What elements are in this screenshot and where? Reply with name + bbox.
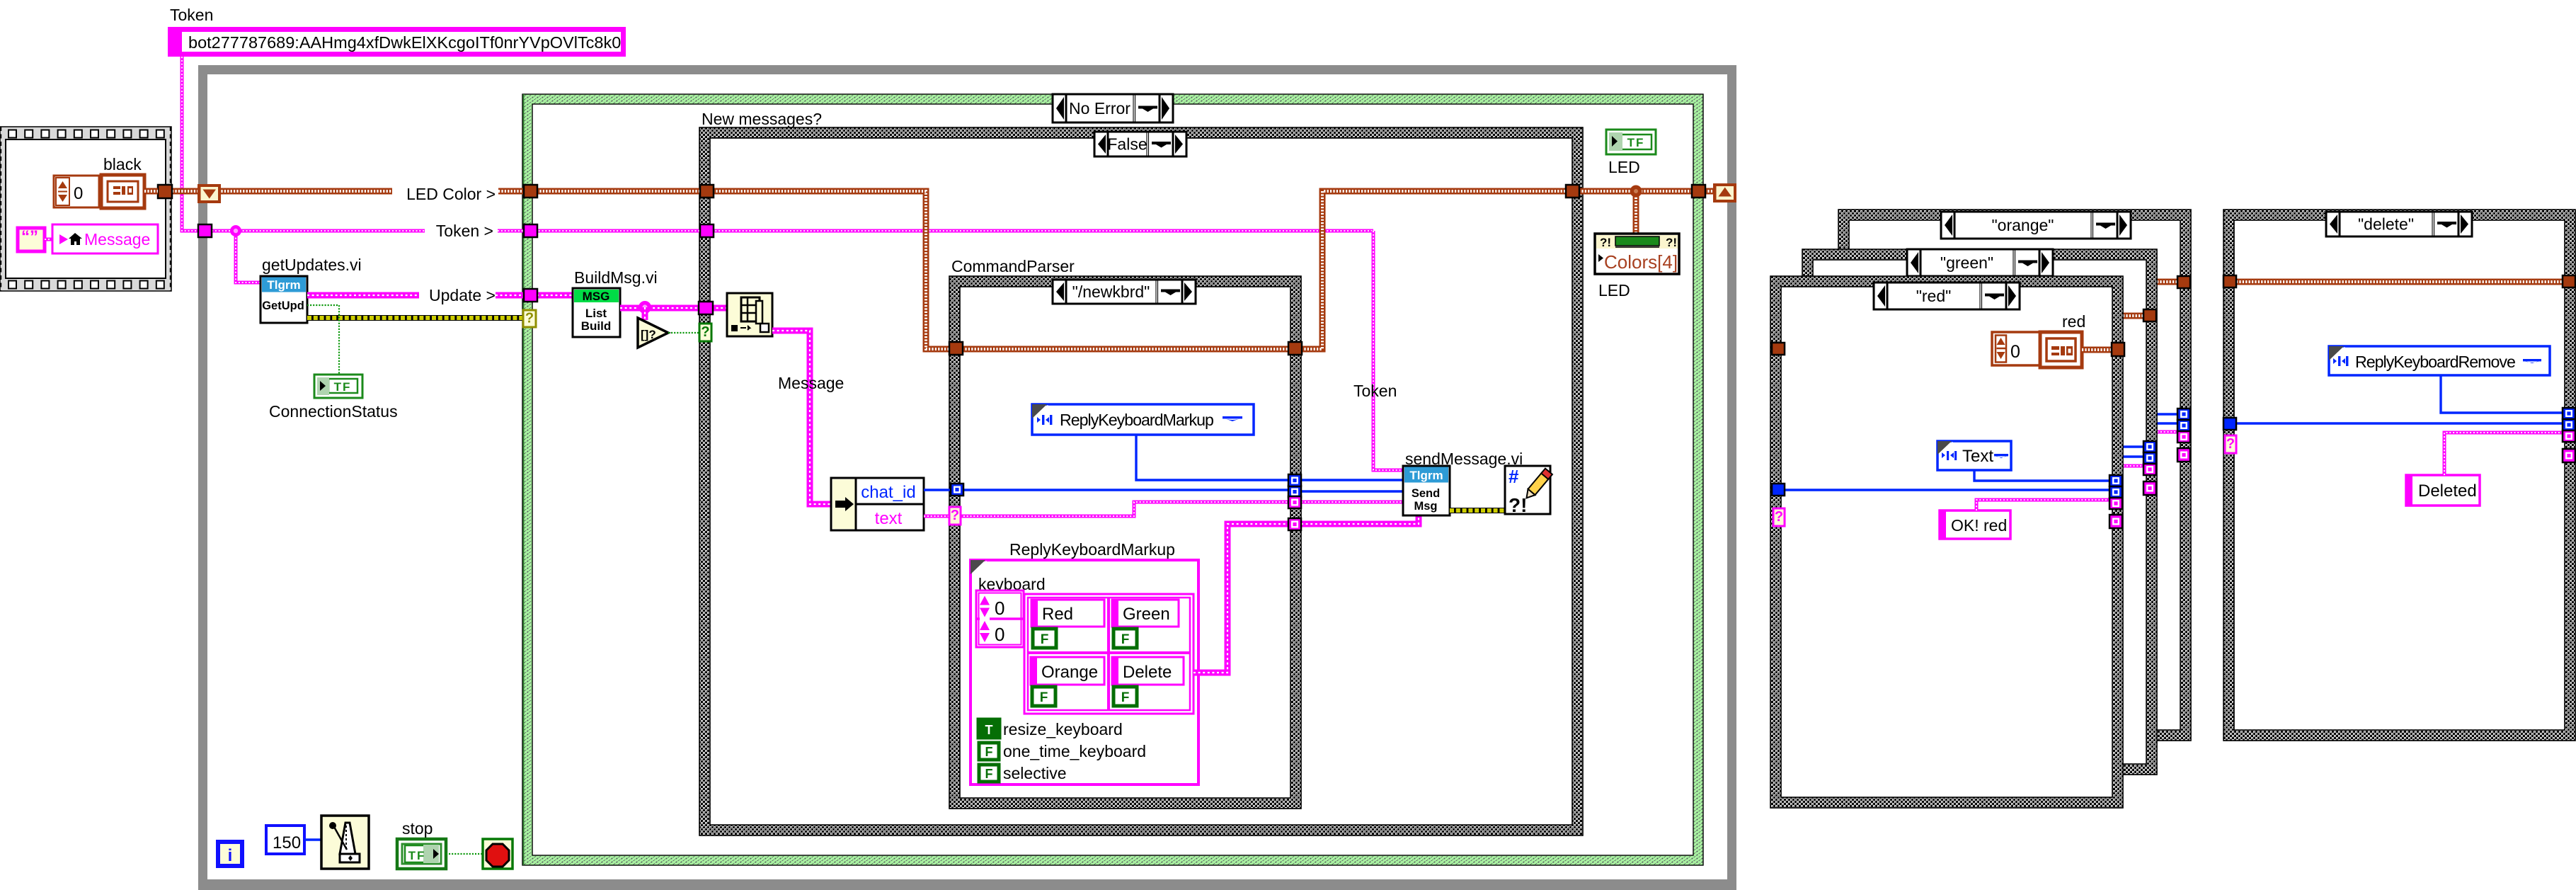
cluster Message xyxy=(52,224,158,253)
tunnel chat_id delete left xyxy=(2223,418,2236,430)
tunnel LED on New messages right xyxy=(1566,185,1579,198)
tunnel keyboard CP right xyxy=(1288,518,1301,530)
svg-text:Message: Message xyxy=(84,230,150,249)
tunnel LED on New messages left xyxy=(700,185,714,198)
svg-text:F: F xyxy=(985,745,993,759)
tunnel orange magenta xyxy=(2177,431,2190,443)
cluster ReplyKeyboardMarkup keyboard xyxy=(971,560,1198,785)
tunnel LED CommandParser left xyxy=(949,342,963,355)
svg-text:T: T xyxy=(985,723,993,737)
tunnel orange brown xyxy=(2177,276,2190,288)
wire text xyxy=(924,515,949,518)
svg-text:Tlgrm: Tlgrm xyxy=(1409,469,1443,482)
empty array? comparison xyxy=(638,318,668,348)
wires orange right sliver xyxy=(2157,413,2177,415)
svg-text:resize_keyboard: resize_keyboard xyxy=(1003,720,1123,738)
tunnel red magenta xyxy=(2110,498,2122,509)
svg-text:New messages?: New messages? xyxy=(702,110,822,128)
tunnel red magenta lower xyxy=(2110,515,2122,528)
tunnel green brown xyxy=(2143,309,2156,321)
tunnel Update on No Error xyxy=(524,289,537,302)
tunnel text CP right xyxy=(1288,496,1301,508)
constant ReplyKeyboardRemove type xyxy=(2329,346,2550,375)
wire token main run xyxy=(236,229,425,233)
wire empty-array result xyxy=(668,332,699,333)
svg-text:No Error: No Error xyxy=(1069,99,1130,118)
tunnel boolean ? on New messages xyxy=(699,324,711,341)
wire keyboard json xyxy=(1193,524,1290,673)
tunnel LED on No Error left xyxy=(524,185,537,198)
wire red color xyxy=(2082,347,2112,353)
svg-text:one_time_keyboard: one_time_keyboard xyxy=(1003,742,1146,760)
svg-text:Build: Build xyxy=(581,319,612,333)
svg-text:"orange": "orange" xyxy=(1992,216,2054,234)
tunnel red blue 2 xyxy=(2110,486,2122,498)
svg-text:?!: ?! xyxy=(1600,236,1611,249)
wait until next ms multiple xyxy=(321,816,369,869)
tunnel delete magenta lower xyxy=(2563,449,2575,462)
indicator ConnectionStatus TF xyxy=(314,375,362,398)
svg-text:Token: Token xyxy=(1353,382,1397,400)
tunnel green magenta lower xyxy=(2143,481,2156,495)
wire chat_id xyxy=(924,489,951,491)
indicator LED TF xyxy=(1606,130,1656,154)
svg-text:0: 0 xyxy=(995,598,1004,619)
svg-text:MSG: MSG xyxy=(583,290,610,303)
wire delete brown xyxy=(2236,279,2563,285)
selector orange xyxy=(1941,212,2131,239)
boolean F green xyxy=(1114,629,1137,648)
svg-text:Orange: Orange xyxy=(1041,663,1098,682)
empty string constant xyxy=(18,227,45,251)
svg-text:CommandParser: CommandParser xyxy=(951,257,1075,275)
flat sequence frame xyxy=(0,127,171,291)
wire 150 to wait xyxy=(304,838,321,840)
tunnel green magenta xyxy=(2143,464,2156,475)
svg-text:ReplyKeyboardMarkup: ReplyKeyboardMarkup xyxy=(1009,540,1175,559)
numeric spinner black xyxy=(54,176,99,207)
tunnel orange magenta lower xyxy=(2177,448,2190,462)
boolean F selective xyxy=(979,765,999,782)
wire error cluster xyxy=(307,315,523,321)
error handler node xyxy=(1505,466,1552,516)
numeric spinner red xyxy=(1992,332,2040,365)
svg-text:F: F xyxy=(1041,632,1049,647)
svg-text:0: 0 xyxy=(995,624,1004,645)
svg-text:LED: LED xyxy=(1608,158,1640,176)
svg-text:Text: Text xyxy=(1962,447,1993,466)
indicator Colors[4] xyxy=(1595,234,1679,274)
svg-text:150: 150 xyxy=(273,833,301,852)
selector red xyxy=(1874,283,2020,309)
svg-text:?: ? xyxy=(2226,436,2235,452)
svg-text:Delete: Delete xyxy=(1123,663,1172,682)
wire green brown sliver xyxy=(2123,313,2143,319)
wire OK! red xyxy=(1976,500,2110,510)
svg-text:"/newkbrd": "/newkbrd" xyxy=(1072,283,1150,301)
loop condition terminal xyxy=(483,839,513,869)
svg-text:?: ? xyxy=(951,508,959,523)
svg-text:GetUpd: GetUpd xyxy=(262,299,304,312)
string constant OK! red xyxy=(1940,510,2010,539)
svg-text:i: i xyxy=(228,846,233,865)
svg-text:ReplyKeyboardMarkup: ReplyKeyboardMarkup xyxy=(1060,411,1213,429)
case structure No Error border xyxy=(522,94,1703,865)
wire stop boolean xyxy=(446,853,483,855)
tunnel token on New messages case xyxy=(700,224,714,237)
svg-text:F: F xyxy=(985,767,993,781)
boolean F orange xyxy=(1032,687,1055,706)
wire black to tunnel xyxy=(144,188,158,195)
svg-text:Deleted: Deleted xyxy=(2418,481,2477,501)
svg-text:0: 0 xyxy=(2010,342,2020,362)
tunnel green blue 2 xyxy=(2143,452,2156,464)
svg-text:selective: selective xyxy=(1003,764,1066,782)
svg-text:Token: Token xyxy=(170,6,213,24)
color box constant black xyxy=(101,175,144,208)
junction message xyxy=(639,301,651,314)
wire LED Color brown xyxy=(172,188,198,195)
svg-text:chat_id: chat_id xyxy=(861,483,915,502)
tunnel text ? delete left xyxy=(2225,435,2236,453)
tunnel green blue 1 xyxy=(2143,441,2156,452)
selector /newkbrd xyxy=(1053,280,1196,304)
index array node xyxy=(727,293,772,336)
wires green right sliver xyxy=(2123,445,2143,447)
svg-text:getUpdates.vi: getUpdates.vi xyxy=(262,256,362,274)
svg-text:?: ? xyxy=(701,324,709,340)
wire reply markup xyxy=(1136,435,1290,480)
case structure CommandParser border xyxy=(949,276,1301,809)
left shift register xyxy=(198,184,221,203)
svg-text:F: F xyxy=(1121,690,1130,705)
subVI BuildMsg.vi xyxy=(573,288,620,337)
wire token down to sendMessage xyxy=(1373,231,1403,470)
wire message out of index array xyxy=(772,331,831,504)
wire chat_id red case xyxy=(1785,489,2110,491)
string constant Token bot277787689 xyxy=(168,27,626,57)
numeric constant 150 xyxy=(266,826,304,854)
svg-text:False: False xyxy=(1107,135,1147,154)
svg-text:?: ? xyxy=(525,310,534,326)
tunnel chat_id CP right xyxy=(1288,486,1301,498)
boolean T resize_keyboard xyxy=(978,719,1000,738)
svg-text:black: black xyxy=(103,155,142,173)
svg-text:F: F xyxy=(1040,690,1048,705)
svg-text:TF: TF xyxy=(1627,136,1645,149)
constant Text type xyxy=(1937,441,2011,470)
wire empty string xyxy=(45,238,52,241)
subVI sendMessage.vi xyxy=(1403,466,1450,515)
selector green xyxy=(1907,249,2053,276)
svg-text:Tlgrm: Tlgrm xyxy=(267,278,300,292)
iteration terminal xyxy=(218,842,242,866)
subVI getUpdates.vi xyxy=(261,276,307,323)
tunnel delete brown right xyxy=(2563,275,2575,287)
case structure New messages? border xyxy=(699,127,1583,835)
svg-text:Message: Message xyxy=(778,374,844,392)
svg-text:List: List xyxy=(585,307,607,320)
selector delete xyxy=(2326,212,2472,236)
svg-text:red: red xyxy=(2062,312,2085,331)
svg-text:ConnectionStatus: ConnectionStatus xyxy=(269,402,398,421)
svg-text:?!: ?! xyxy=(1509,494,1527,516)
tunnel delete blue 1 xyxy=(2563,408,2575,419)
svg-text:“”: “” xyxy=(21,227,38,246)
tunnel message on New messages xyxy=(699,302,713,314)
tunnel red blue 1 xyxy=(2110,475,2122,486)
svg-text:[]?: []? xyxy=(641,328,656,341)
tunnel LED on sequence frame xyxy=(158,185,172,198)
string constant Delete xyxy=(1112,657,1184,685)
svg-text:"delete": "delete" xyxy=(2358,215,2414,234)
wire chat_id delete case xyxy=(2236,422,2563,424)
wire token branch to getUpdates xyxy=(236,231,261,283)
case structure delete xyxy=(2223,210,2575,741)
svg-text:"red": "red" xyxy=(1916,287,1952,305)
svg-text:?!: ?! xyxy=(1666,236,1677,249)
svg-text:Red: Red xyxy=(1042,605,1073,624)
svg-text:ReplyKeyboardRemove: ReplyKeyboardRemove xyxy=(2355,353,2515,371)
svg-text:#: # xyxy=(1509,466,1519,487)
svg-text:Update >: Update > xyxy=(429,286,496,304)
svg-text:OK! red: OK! red xyxy=(1951,516,2007,535)
boolean F red xyxy=(1033,629,1056,648)
tunnel chat_id CP left xyxy=(951,484,963,496)
svg-text:F: F xyxy=(1121,632,1130,647)
control stop TF xyxy=(397,839,446,869)
svg-text:Green: Green xyxy=(1123,605,1170,624)
tunnel LED on No Error right xyxy=(1692,185,1705,198)
svg-text:LED: LED xyxy=(1598,281,1630,299)
junction token xyxy=(230,225,241,236)
wire orange brown sliver xyxy=(2157,279,2177,285)
tunnel token on while loop xyxy=(198,224,212,237)
wire Token string xyxy=(182,57,236,231)
svg-text:"green": "green" xyxy=(1940,253,1993,272)
tunnel text ? CP left xyxy=(949,507,961,525)
svg-text:0: 0 xyxy=(74,184,83,203)
tunnel orange blue 2 xyxy=(2177,420,2190,431)
tunnel text ? red left xyxy=(1773,508,1785,526)
string constant Deleted xyxy=(2406,475,2480,506)
case structure orange xyxy=(1838,210,2191,741)
svg-text:BuildMsg.vi: BuildMsg.vi xyxy=(574,268,658,287)
while loop border xyxy=(198,65,1736,890)
wire connection boolean xyxy=(307,305,339,375)
case structure red xyxy=(1770,276,2123,808)
svg-text:LED Color >: LED Color > xyxy=(406,185,496,203)
tunnel delete magenta xyxy=(2563,430,2575,442)
boolean F delete xyxy=(1114,687,1137,706)
svg-text:Colors[4]: Colors[4] xyxy=(1604,251,1678,273)
wire Deleted xyxy=(2444,433,2563,475)
tunnel chat_id red left xyxy=(1772,484,1785,496)
selector No Error xyxy=(1053,94,1173,122)
string constant Orange xyxy=(1031,657,1104,685)
svg-text:Send: Send xyxy=(1412,487,1440,500)
svg-text:?: ? xyxy=(1775,509,1783,525)
wire message to empty-array check xyxy=(642,307,648,320)
tunnel LED CommandParser right xyxy=(1288,342,1302,355)
svg-text:TF: TF xyxy=(408,849,426,862)
svg-text:TF: TF xyxy=(334,380,352,394)
svg-text:text: text xyxy=(875,509,903,528)
svg-text:stop: stop xyxy=(402,819,433,838)
wire message array xyxy=(620,305,699,312)
wire error out xyxy=(1450,508,1505,513)
boolean F one_time_keyboard xyxy=(979,743,999,760)
wire reply keyboard remove xyxy=(2441,375,2563,413)
color box constant red xyxy=(2040,332,2082,367)
tunnel delete blue 2 xyxy=(2563,419,2575,430)
selector False xyxy=(1094,132,1186,156)
svg-text:Token >: Token > xyxy=(436,222,493,240)
string constant Green xyxy=(1112,600,1179,627)
tunnel token on No Error case xyxy=(524,224,537,237)
case structure green xyxy=(1802,249,2157,775)
tunnel error ? on No Error xyxy=(523,310,536,327)
junction LED color xyxy=(1630,186,1642,198)
wire Text markup xyxy=(1974,470,2110,481)
wire Update xyxy=(307,292,419,299)
tunnel orange blue 1 xyxy=(2177,409,2190,420)
tunnel delete brown left xyxy=(2223,275,2236,287)
constant ReplyKeyboardMarkup type xyxy=(1032,404,1254,435)
tunnel markup CP right xyxy=(1288,474,1301,486)
tunnel red brown left xyxy=(1772,343,1785,355)
svg-text:Msg: Msg xyxy=(1414,500,1438,513)
string constant Red xyxy=(1031,600,1104,627)
svg-text:bot277787689:AAHmg4xfDwkElXKcg: bot277787689:AAHmg4xfDwkElXKcgoITf0nrYVp… xyxy=(188,33,621,52)
right shift register xyxy=(1713,183,1736,202)
wire LED color to Colors[4] xyxy=(1633,191,1639,235)
tunnel red brown xyxy=(2112,343,2124,356)
unbundle by name xyxy=(831,478,924,530)
